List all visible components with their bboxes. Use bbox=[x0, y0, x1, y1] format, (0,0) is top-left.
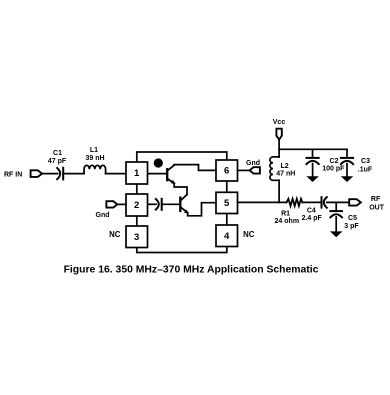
svg-text:Vcc: Vcc bbox=[273, 119, 286, 126]
ground C2 bbox=[306, 176, 318, 182]
svg-text:R1: R1 bbox=[281, 210, 290, 217]
inductor L1 bbox=[84, 165, 106, 173]
transistor Q1 bbox=[167, 165, 175, 184]
svg-text:3: 3 bbox=[134, 232, 139, 243]
capacitor C5 bbox=[330, 211, 342, 217]
svg-text:L1: L1 bbox=[90, 147, 98, 154]
svg-text:6: 6 bbox=[224, 166, 229, 177]
pin 1 marker dot bbox=[154, 158, 163, 167]
capacitor C4 bbox=[322, 197, 327, 208]
wire C4 to RF OUT bbox=[327, 201, 349, 203]
pin 6 box bbox=[216, 160, 238, 181]
pin 2 box bbox=[126, 194, 148, 216]
wire pin2 to coupling cap bbox=[148, 203, 157, 205]
svg-text:24 ohm: 24 ohm bbox=[275, 218, 300, 225]
connector RF OUT bbox=[349, 199, 361, 205]
connector RF IN bbox=[31, 170, 42, 177]
svg-text:5: 5 bbox=[224, 198, 230, 209]
pin 3 box bbox=[126, 226, 148, 248]
wire Vcc to L2 bbox=[278, 140, 280, 157]
wire cap to Q2 base bbox=[162, 203, 180, 205]
wire L2 to output rail bbox=[278, 180, 280, 202]
capacitor C3 bbox=[341, 158, 353, 164]
C5 stem bbox=[335, 202, 337, 210]
wire RF IN to C1 bbox=[42, 173, 58, 175]
Vcc terminal bbox=[276, 129, 281, 140]
svg-text:4: 4 bbox=[224, 231, 230, 242]
Gnd connector at pin 6 bbox=[250, 167, 260, 173]
wire pin1 to Q1 base bbox=[148, 173, 167, 175]
svg-text:47 nH: 47 nH bbox=[276, 171, 295, 178]
resistor R1 bbox=[287, 199, 303, 206]
capacitor C2 bbox=[307, 158, 319, 164]
svg-text:1: 1 bbox=[134, 168, 140, 179]
svg-text:C4: C4 bbox=[307, 207, 316, 214]
wire pin 5 to R1 with L2 junction bbox=[238, 201, 287, 203]
pin 5 box bbox=[216, 192, 238, 213]
svg-text:RF IN: RF IN bbox=[4, 172, 22, 179]
wire pin 6 to Gnd connector bbox=[238, 169, 250, 171]
svg-text:RF: RF bbox=[371, 196, 381, 203]
wire Q1 emitter to Q2 collector bbox=[174, 183, 187, 194]
svg-text:2: 2 bbox=[134, 200, 139, 211]
ground C3 bbox=[341, 176, 353, 182]
wire Q2 emitter to pin 5 bbox=[188, 203, 216, 216]
svg-text:L2: L2 bbox=[281, 163, 289, 170]
svg-text:Gnd: Gnd bbox=[96, 212, 110, 219]
ground C5 bbox=[330, 231, 342, 237]
coupling capacitor internal bbox=[156, 199, 162, 210]
svg-text:C1: C1 bbox=[53, 150, 62, 157]
IC package outline bbox=[137, 152, 227, 253]
svg-text:47 pF: 47 pF bbox=[48, 158, 67, 165]
Vcc rail to C2 C3 bbox=[279, 148, 347, 150]
svg-text:C2: C2 bbox=[330, 158, 339, 165]
wire C1 to L1 bbox=[63, 173, 84, 175]
svg-text:Figure 16. 350 MHz–370 MHz App: Figure 16. 350 MHz–370 MHz Application S… bbox=[64, 264, 319, 275]
svg-text:NC: NC bbox=[243, 230, 255, 239]
svg-text:100 pF: 100 pF bbox=[322, 165, 345, 172]
svg-text:OUT: OUT bbox=[369, 204, 385, 211]
pin 1 box bbox=[126, 162, 148, 184]
C2 stem bbox=[312, 149, 314, 157]
pin 4 box bbox=[216, 225, 238, 247]
inductor L2 bbox=[270, 157, 279, 180]
wire Gnd to pin 2 bbox=[117, 203, 126, 205]
capacitor C1 bbox=[57, 168, 63, 180]
svg-text:39 nH: 39 nH bbox=[85, 155, 104, 162]
wire Q1 collector to pin 6 bbox=[174, 165, 216, 171]
svg-text:2.4 pF: 2.4 pF bbox=[302, 215, 323, 222]
wire L1 to pin 1 bbox=[106, 173, 126, 175]
wire R1 to C4 bbox=[302, 201, 321, 203]
svg-text:Gnd: Gnd bbox=[246, 160, 260, 167]
svg-text:3 pF: 3 pF bbox=[344, 223, 359, 230]
C3 stem bbox=[346, 149, 348, 157]
Gnd connector at pin 2 bbox=[106, 201, 117, 207]
svg-text:C5: C5 bbox=[348, 215, 357, 222]
svg-text:C3: C3 bbox=[361, 158, 370, 165]
svg-text:NC: NC bbox=[109, 230, 121, 239]
transistor Q2 bbox=[180, 195, 189, 214]
svg-text:.1uF: .1uF bbox=[358, 166, 373, 173]
